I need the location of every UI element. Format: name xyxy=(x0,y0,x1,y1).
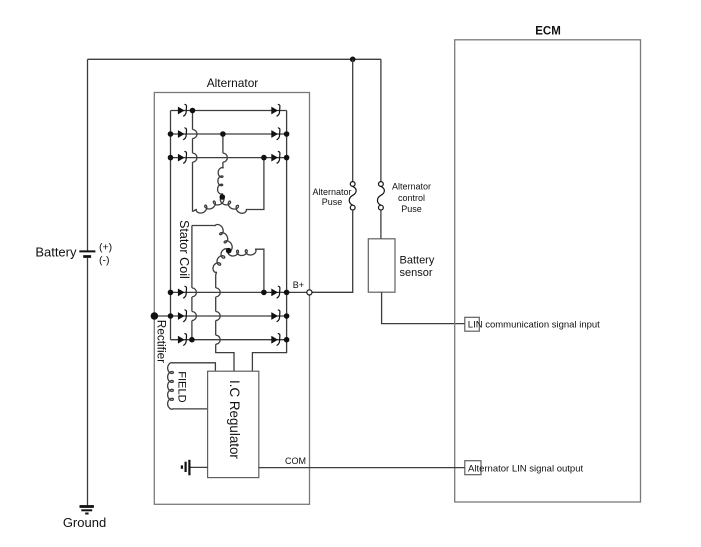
fuse F2 Alternator control Puse xyxy=(379,182,384,187)
alternator box xyxy=(154,93,309,505)
wire right bus to regulator xyxy=(252,340,286,372)
coil stator upper phase B xyxy=(218,168,224,195)
svg-text:Ground: Ground xyxy=(63,515,106,530)
node row5 right bus xyxy=(284,313,290,319)
wire field top xyxy=(173,363,215,371)
node row6 right bus xyxy=(284,337,290,343)
wire battery negative down to ground xyxy=(87,258,89,505)
ECM pin box LIN output xyxy=(465,461,481,475)
diode D5 left row5 xyxy=(178,312,185,320)
wire left rectifier bus xyxy=(170,111,172,340)
fuse F1 Alternator Puse xyxy=(350,182,355,187)
diode D6 left row6 xyxy=(178,336,185,344)
wire phase A vertical xyxy=(192,111,194,130)
wire battery sensor to LIN line xyxy=(382,292,465,323)
wire coil tail to neutral xyxy=(221,193,223,197)
ECM pin box LIN input xyxy=(465,317,480,331)
hop bottom lead over row4 xyxy=(216,288,221,297)
ground symbol regulator xyxy=(188,460,190,476)
hop phase A over row2 xyxy=(193,130,198,139)
node row2 phase B xyxy=(220,131,226,137)
battery B1 plates xyxy=(79,250,95,252)
node row3 left bus xyxy=(168,155,174,161)
svg-text:Rectifier: Rectifier xyxy=(154,320,168,363)
wire field bottom xyxy=(173,408,207,410)
coil field F xyxy=(168,363,174,410)
diode D3 left row3 xyxy=(178,154,185,162)
battery sensor box xyxy=(368,239,395,292)
svg-text:LIN communication signal input: LIN communication signal input xyxy=(468,320,600,331)
wire COM to ECM xyxy=(259,467,465,469)
wire fuse2 to battery sensor xyxy=(380,210,382,239)
wire phase B vertical xyxy=(222,134,224,153)
svg-text:I.C Regulator: I.C Regulator xyxy=(227,380,242,459)
svg-text:sensor: sensor xyxy=(400,267,433,279)
svg-text:B+: B+ xyxy=(293,280,304,290)
hop phase B over row3 xyxy=(223,153,228,162)
node row4 left bus xyxy=(168,290,174,296)
wire top bus battery to fuses xyxy=(88,58,381,60)
node row6 lower stator left xyxy=(189,337,195,343)
svg-text:Battery: Battery xyxy=(400,255,435,267)
diode D7 right row1 xyxy=(271,107,278,115)
node row5 left bus xyxy=(168,313,174,319)
wire rectifier row3 xyxy=(171,157,287,159)
wire lower stator bottom lead xyxy=(215,272,218,288)
wire lower stator right leg xyxy=(255,249,264,292)
node row2 left bus xyxy=(168,131,174,137)
diode D11 right row5 xyxy=(271,312,278,320)
svg-text:Alternator: Alternator xyxy=(207,76,259,90)
hop lower-left over row4 xyxy=(192,288,197,297)
svg-text:Puse: Puse xyxy=(401,204,422,214)
node row1 phase A xyxy=(190,108,196,114)
wire regulator ground xyxy=(191,466,208,468)
coil stator lower phase 2 xyxy=(228,249,256,256)
svg-text:COM: COM xyxy=(285,456,306,466)
svg-text:Alternator LIN signal output: Alternator LIN signal output xyxy=(468,463,583,474)
wire phase C vertical xyxy=(246,158,264,210)
coil stator lower phase 3 xyxy=(213,249,229,273)
diode D4 left row4 xyxy=(178,289,185,297)
diode D1 left row1 xyxy=(178,107,185,115)
node row4 lower stator right xyxy=(261,290,267,296)
wire lower stator left vertical xyxy=(191,226,193,288)
wire rectifier row4 B+ xyxy=(171,291,307,293)
svg-text:(-): (-) xyxy=(99,254,110,266)
hop lower-left over row5 xyxy=(192,312,197,321)
diode D2 left row2 xyxy=(178,130,185,138)
svg-text:Alternator: Alternator xyxy=(392,182,431,192)
svg-text:ECM: ECM xyxy=(535,26,561,38)
ECM box xyxy=(455,40,641,502)
coil stator upper phase A xyxy=(196,197,224,213)
wire battery positive up xyxy=(87,59,89,251)
wire rectifier row6 xyxy=(171,339,287,341)
hop bottom lead over row5 xyxy=(216,312,221,321)
terminal B+ xyxy=(307,290,312,295)
node junction top bus / alternator fuse xyxy=(350,57,356,63)
wire fuse1 lower to B+ xyxy=(312,210,353,292)
svg-text:Alternator: Alternator xyxy=(312,187,351,197)
wire B+ stub xyxy=(312,291,353,293)
diode D10 right row4 xyxy=(271,289,278,297)
node row5 case xyxy=(151,312,159,320)
wire fuse1 upper xyxy=(352,59,354,181)
wire rectifier row5 xyxy=(154,315,286,317)
IC regulator box U1 xyxy=(208,371,259,477)
diode D9 right row3 xyxy=(271,154,278,162)
hop phase A over row3 xyxy=(193,153,198,162)
wire lower stator top-left xyxy=(192,225,215,227)
svg-text:Puse: Puse xyxy=(322,197,343,207)
wire rectifier row2 xyxy=(171,133,287,135)
diode D8 right row2 xyxy=(271,130,278,138)
node lower stator neutral xyxy=(226,248,232,254)
node row3 phase C xyxy=(261,155,267,161)
svg-text:(+): (+) xyxy=(99,241,112,253)
diode D12 right row6 xyxy=(271,336,278,344)
wire fuse2 upper xyxy=(380,59,382,181)
svg-text:Battery: Battery xyxy=(35,245,77,260)
coil stator lower phase 1 xyxy=(215,225,232,252)
svg-text:FIELD: FIELD xyxy=(176,371,188,402)
hop bottom lead over row6 xyxy=(216,335,221,344)
svg-text:Stator Coil: Stator Coil xyxy=(177,220,191,279)
node row3 right bus xyxy=(284,155,290,161)
coil stator upper phase C xyxy=(220,197,246,213)
svg-text:control: control xyxy=(398,193,425,203)
wire right rectifier bus xyxy=(286,111,288,340)
node row2 right bus xyxy=(284,131,290,137)
node row4 right bus xyxy=(284,290,290,296)
wire rectifier row1 xyxy=(171,110,287,112)
node upper stator neutral xyxy=(220,194,226,200)
ground symbol main xyxy=(80,505,94,508)
